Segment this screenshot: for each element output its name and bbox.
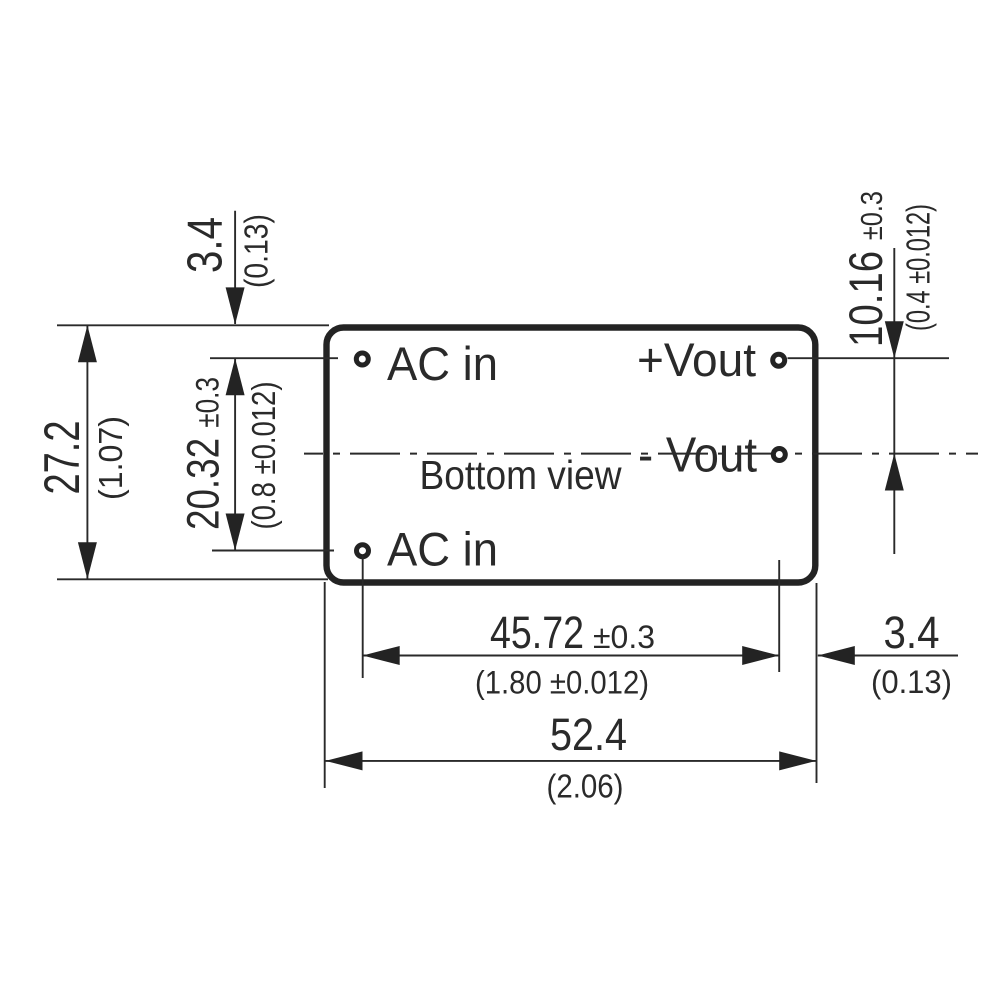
arrow left 3.4 bottom xyxy=(818,646,855,665)
arrow up 27.2 xyxy=(78,325,97,362)
svg-text:45.72: 45.72 xyxy=(490,607,584,658)
arrow down 3.4 top xyxy=(226,287,245,324)
svg-text:3.4: 3.4 xyxy=(179,217,233,273)
svg-text:(2.06): (2.06) xyxy=(547,768,624,805)
dimension line 3.4 (bottom right) xyxy=(818,655,958,657)
arrow right 52.4 xyxy=(779,751,816,770)
centerline (dash-dot horizontal axis) xyxy=(304,453,978,455)
extension line pin column right (below) xyxy=(778,560,780,672)
extension line bottom edge (left) xyxy=(57,578,328,580)
module outline (bottom view of converter package) xyxy=(327,328,816,583)
arrow right 45.72 xyxy=(742,646,779,665)
svg-text:(0.4 ±0.012): (0.4 ±0.012) xyxy=(900,204,937,331)
extension line top edge (left) xyxy=(57,324,329,326)
svg-text:52.4: 52.4 xyxy=(550,709,627,760)
arrow down 10.16 xyxy=(885,321,904,358)
svg-text:(0.13): (0.13) xyxy=(871,664,952,700)
arrow up 10.16 xyxy=(885,454,904,491)
dimension line 20.32 xyxy=(234,358,236,550)
svg-text:10.16 ±0.3: 10.16 ±0.3 xyxy=(839,191,892,347)
dimension line 27.2 xyxy=(86,325,88,579)
svg-text:Bottom view: Bottom view xyxy=(420,452,622,498)
arrow down 27.2 xyxy=(78,542,97,579)
arrow left 45.72 xyxy=(363,646,400,665)
extension line pin row 3 (left) xyxy=(212,550,334,552)
svg-text:3.4: 3.4 xyxy=(884,607,940,658)
pin 2 (AC in, bottom-left) xyxy=(357,545,369,557)
svg-text:- Vout: - Vout xyxy=(638,429,757,483)
pin 4 (-Vout, middle-right) xyxy=(773,449,785,461)
svg-text:(1.80 ±0.012): (1.80 ±0.012) xyxy=(475,665,649,701)
svg-text:AC in: AC in xyxy=(387,522,498,575)
arrow left 52.4 xyxy=(326,751,363,770)
svg-text:+Vout: +Vout xyxy=(637,333,756,386)
dimension line 10.16 xyxy=(893,248,895,554)
extension line module left edge (below) xyxy=(324,582,326,788)
pin 3 (+Vout, top-right) xyxy=(773,354,785,366)
svg-text:(0.8 ±0.012): (0.8 ±0.012) xyxy=(245,382,282,530)
dimension line 52.4 xyxy=(326,760,817,762)
extension line module right edge (below) xyxy=(816,583,818,783)
svg-text:AC in: AC in xyxy=(387,337,498,390)
svg-text:27.2: 27.2 xyxy=(34,421,90,495)
extension line pin row 1 (right) xyxy=(788,357,950,359)
svg-text:(1.07): (1.07) xyxy=(92,416,129,500)
pin 1 (AC in, top-left) xyxy=(356,353,368,365)
extension line pin row 1 (left) xyxy=(210,357,338,359)
arrow down 20.32 xyxy=(226,514,245,551)
dimension line 45.72 xyxy=(363,655,780,657)
dimension line 3.4 (top) xyxy=(234,211,236,324)
svg-text:20.32 ±0.3: 20.32 ±0.3 xyxy=(178,377,229,530)
arrow up 20.32 xyxy=(226,358,245,395)
extension line pin column left (below) xyxy=(362,556,364,678)
svg-text:±0.3: ±0.3 xyxy=(593,619,655,655)
svg-text:(0.13): (0.13) xyxy=(238,214,275,288)
